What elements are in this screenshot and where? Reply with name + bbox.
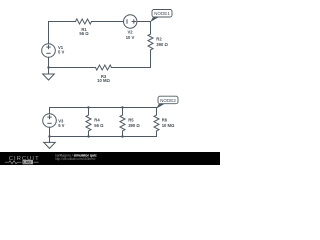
wire R6 top lead	[156, 108, 158, 116]
svg-text:390 Ω: 390 Ω	[156, 42, 168, 47]
voltage source V2	[124, 15, 137, 28]
CircuitLab logo	[5, 156, 40, 165]
svg-text:http://circuitlab.com/c83bexb: http://circuitlab.com/c83bexb	[55, 157, 96, 161]
junction R4 bottom	[87, 135, 89, 137]
wire R5 top lead	[122, 108, 124, 116]
wire R3 to V1 bottom junction	[49, 67, 96, 69]
svg-text:56 Ω: 56 Ω	[79, 31, 89, 36]
wire V2 to node NODE1	[137, 21, 151, 23]
svg-text:5 V: 5 V	[58, 123, 64, 128]
node NODE1 flag	[150, 10, 172, 23]
footer bar	[0, 152, 220, 165]
resistor R1	[76, 19, 92, 24]
svg-text:56 Ω: 56 Ω	[94, 123, 104, 128]
junction V1-GND1	[47, 66, 49, 68]
svg-text:R2: R2	[156, 37, 162, 42]
svg-text:5 V: 5 V	[58, 49, 64, 54]
svg-text:390 Ω: 390 Ω	[128, 123, 140, 128]
node NODE2 flag	[156, 96, 178, 108]
svg-text:V2: V2	[127, 30, 133, 35]
junction R5 top	[121, 106, 123, 108]
wire V3 top to rail	[50, 108, 157, 114]
ground GND2	[49, 137, 51, 143]
wire R4 top lead	[88, 108, 90, 116]
svg-text:10 MΩ: 10 MΩ	[162, 123, 175, 128]
wire R2 to bottom rail	[112, 50, 151, 68]
voltage source V1	[42, 44, 56, 58]
voltage source V3	[43, 114, 57, 128]
wire node to R2	[150, 22, 152, 35]
svg-text:10 MΩ: 10 MΩ	[97, 78, 110, 83]
svg-text:NODE1: NODE1	[154, 11, 170, 16]
wire V3 bottom	[49, 127, 51, 136]
resistor R2	[148, 34, 153, 50]
resistor R6	[154, 115, 159, 131]
wire R4 bottom lead	[88, 131, 90, 137]
junction R4 top	[87, 106, 89, 108]
wire bottom rail	[50, 136, 157, 138]
ground GND1	[48, 68, 50, 75]
resistor R5	[120, 115, 125, 131]
svg-text:NODE2: NODE2	[160, 98, 176, 103]
resistor R4	[86, 115, 91, 131]
wire R1 to V2	[92, 21, 124, 23]
svg-text:LAB: LAB	[23, 160, 31, 165]
junction V3-GND2	[48, 135, 50, 137]
svg-text:10 V: 10 V	[126, 35, 135, 40]
junction R5 bottom	[121, 135, 123, 137]
resistor R3	[95, 65, 111, 70]
wire V1 bottom	[48, 57, 50, 67]
footer credits	[55, 153, 97, 161]
wire R5 bottom lead	[122, 131, 124, 137]
wire R6 bottom lead	[156, 131, 158, 137]
wire V1 top to rail	[49, 22, 76, 44]
